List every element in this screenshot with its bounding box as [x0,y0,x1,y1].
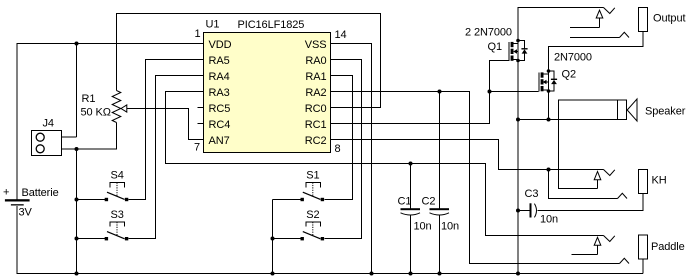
svg-text:R1: R1 [82,93,96,105]
svg-text:RC2: RC2 [305,135,327,147]
svg-text:Speaker: Speaker [645,106,686,118]
svg-text:2N7000: 2N7000 [554,52,592,64]
svg-text:U1: U1 [206,19,220,31]
svg-text:7: 7 [194,142,200,154]
svg-text:VDD: VDD [209,39,232,51]
svg-text:14: 14 [335,29,347,41]
svg-text:PIC16LF1825: PIC16LF1825 [238,19,305,31]
svg-text:RC4: RC4 [209,119,231,131]
svg-text:RA3: RA3 [209,87,230,99]
svg-text:RA5: RA5 [209,55,230,67]
svg-text:S3: S3 [111,209,124,221]
svg-text:AN7: AN7 [209,135,230,147]
svg-text:KH: KH [652,175,667,187]
svg-text:RA1: RA1 [305,71,326,83]
svg-text:RC5: RC5 [209,103,231,115]
svg-text:C3: C3 [525,188,539,200]
svg-text:50 KΩ: 50 KΩ [81,107,111,119]
svg-text:RA4: RA4 [209,71,230,83]
svg-text:S1: S1 [306,170,319,182]
svg-text:8: 8 [335,143,341,155]
svg-text:+: + [3,187,9,199]
svg-text:RA0: RA0 [305,55,326,67]
svg-text:10n: 10n [414,221,432,233]
svg-text:J4: J4 [43,118,54,130]
svg-text:3V: 3V [19,207,33,219]
svg-text:C2: C2 [422,196,436,208]
svg-text:Q1: Q1 [488,41,502,53]
svg-text:Output: Output [653,13,685,25]
svg-text:1: 1 [194,28,200,40]
svg-text:RA2: RA2 [305,87,326,99]
svg-text:Paddle: Paddle [651,241,685,253]
svg-text:10n: 10n [441,221,459,233]
svg-text:VSS: VSS [305,39,327,51]
svg-text:C1: C1 [398,196,412,208]
svg-text:S2: S2 [306,209,319,221]
svg-text:10n: 10n [540,214,558,226]
svg-text:S4: S4 [111,170,124,182]
svg-text:Batterie: Batterie [22,187,59,199]
svg-text:RC0: RC0 [305,103,327,115]
svg-text:2 2N7000: 2 2N7000 [465,27,512,39]
svg-text:RC1: RC1 [305,119,327,131]
svg-text:Q2: Q2 [562,69,576,81]
